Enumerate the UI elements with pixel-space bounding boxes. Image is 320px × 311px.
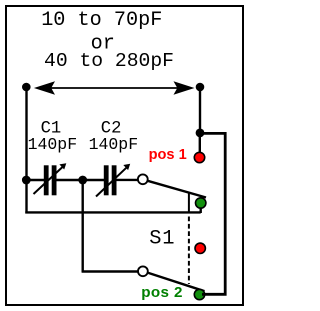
capacitor C2 plates [104, 165, 109, 195]
wire: middle junction to C2 left plate [83, 179, 104, 181]
svg-text:140pF: 140pF [89, 135, 139, 154]
wire: double-headed span arrow shaft [40, 87, 190, 89]
svg-text:10 to 70pF: 10 to 70pF [41, 9, 162, 32]
border frame [6, 6, 243, 305]
svg-text:40 to 280pF: 40 to 280pF [44, 50, 174, 72]
mechanical link of S1: dashed gang line [188, 217, 190, 285]
wire: stub up to green pos2 contact of S1a [199, 203, 201, 213]
mechanical link of S1: solid upper part [188, 193, 190, 212]
contact pos1 of S1a (red) [194, 152, 204, 162]
wire: C1 right plate to middle junction [57, 179, 84, 181]
contact pos2 of S1a (green) [196, 198, 206, 208]
wire: junction down to pos1 contact [199, 133, 201, 153]
wire: junction to C1 left plate [26, 179, 44, 181]
capacitor C1 variable arrow [34, 167, 63, 194]
node: junction dot right [196, 129, 205, 138]
wire: across to S1b pivot [82, 270, 138, 272]
svg-text:140pF: 140pF [28, 135, 78, 154]
contact pos1 of S1b (red, unconnected) [195, 243, 205, 253]
wire: right terminal down to junction [199, 87, 201, 134]
wire: middle junction down to S1b [81, 180, 83, 272]
contact pos2 of S1b (green) [194, 289, 204, 299]
svg-text:pos 2: pos 2 [141, 284, 183, 301]
switch S1a pivot circle [138, 174, 148, 184]
node: junction dot at C1 left [22, 176, 31, 185]
node: left terminal dot [22, 83, 31, 92]
switch S1b pivot circle [138, 266, 148, 276]
wire: bus right from junction [200, 133, 225, 294]
switch S1a arm to pos2 [148, 181, 206, 198]
wire: bottom loop horizontal to pos2 contact stub [25, 211, 200, 213]
capacitor C2 variable arrow [96, 168, 126, 197]
arrowhead left of span arrow [34, 81, 55, 95]
node: right terminal dot [196, 83, 205, 92]
node: middle junction dot [78, 176, 87, 185]
capacitor C1 plates [44, 165, 49, 195]
svg-text:pos 1: pos 1 [149, 147, 187, 163]
switch S1b arm to pos2 [148, 273, 204, 291]
svg-text:S1: S1 [149, 227, 175, 250]
wire: C2 right plate to S1a pivot [117, 179, 138, 181]
wire: left vertical from terminal down [25, 87, 27, 213]
arrowhead right of span arrow [174, 81, 195, 95]
